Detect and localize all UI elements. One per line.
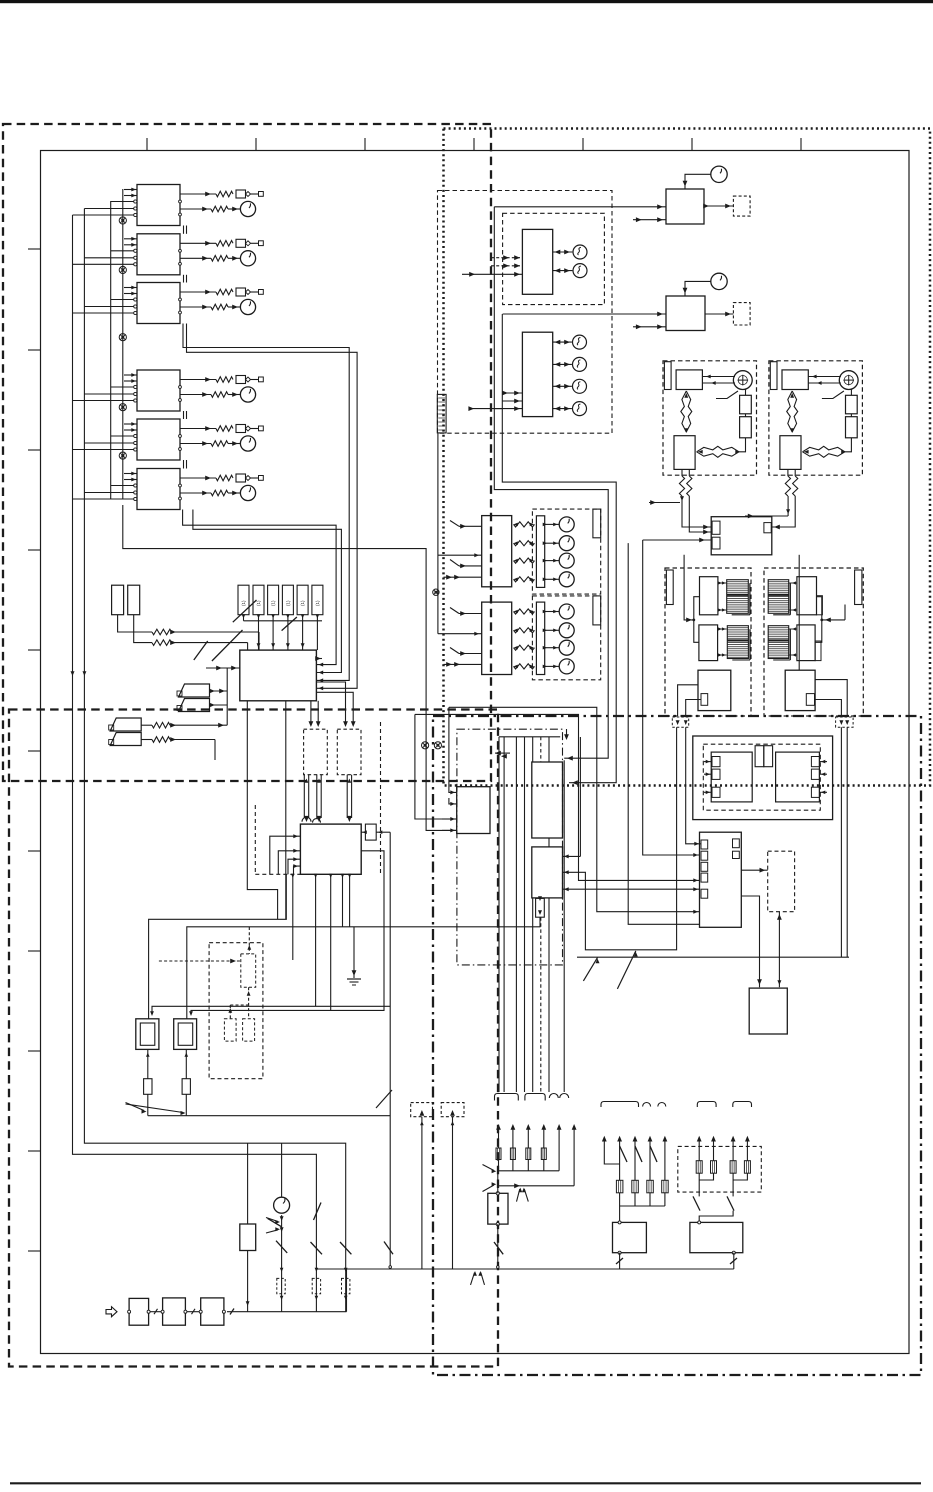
fuse FB4 — [282, 585, 293, 615]
accessory switches — [620, 1146, 627, 1162]
accessory fuse — [662, 1180, 669, 1193]
motor drive assembly outer box — [693, 736, 833, 820]
lighting arrow — [745, 1136, 750, 1142]
accessory arrows left group — [602, 1136, 607, 1142]
crossing slash d — [212, 630, 243, 661]
wire slash mark b — [617, 951, 635, 989]
gauge M5 — [240, 436, 255, 451]
indicator lamp L3 — [573, 335, 587, 349]
accessory fuse — [632, 1180, 639, 1193]
svg-text:(1): (1) — [241, 600, 246, 606]
option dash-dot box — [457, 729, 563, 965]
relay unit U1 — [137, 185, 180, 226]
harness hood 5 — [733, 1102, 752, 1108]
unit R row2 grid — [768, 626, 789, 659]
wire: contactor L aux to E2 port1 — [686, 727, 701, 844]
zone crossing arrows — [495, 751, 501, 756]
main bus at 1269 — [316, 1268, 733, 1270]
U1 gauge wire — [180, 208, 211, 210]
fuse row1 — [541, 1148, 546, 1160]
svg-text:(1): (1) — [256, 600, 261, 606]
wire from E1 bottom — [285, 701, 287, 920]
meter cluster dashed enclosure — [438, 191, 613, 434]
control box out to contactor R — [798, 555, 800, 670]
fuse FB1 — [238, 585, 249, 615]
center junction box — [457, 787, 490, 834]
unit1 input wire low — [444, 576, 482, 578]
gauge G-A wire — [685, 174, 711, 189]
horn unit L coil box — [676, 370, 702, 390]
U1 input stubs — [124, 189, 137, 191]
main controller box E1 — [240, 650, 317, 701]
drive feed stubs — [704, 761, 712, 763]
horizontal spring R — [803, 446, 845, 452]
E4 left inputs — [270, 836, 301, 874]
wire left trunk b — [123, 505, 457, 830]
grid link arrows — [718, 582, 727, 584]
U2 fuse row wire — [180, 242, 216, 244]
relay K1 resistor — [144, 1079, 152, 1095]
relay dashed box K3 — [768, 851, 795, 912]
lever switch S1 — [179, 684, 210, 697]
relay unit U3 — [137, 283, 180, 324]
relay box R — [780, 436, 801, 470]
horn unit R mount tab — [770, 362, 777, 390]
grommet pair center — [422, 742, 429, 749]
meter unit 1 dashed box — [503, 213, 605, 304]
resistor R1b — [211, 206, 228, 212]
wire R7 to controller — [172, 631, 260, 633]
E2 input arrows — [693, 853, 698, 857]
B2 output to trunk — [563, 855, 581, 857]
E1 output to connector rect2 b — [316, 692, 353, 725]
capacitor block R1 — [846, 395, 858, 414]
contactor R wires down — [815, 680, 847, 716]
resistor below B2 — [536, 898, 545, 917]
gauge G-A — [711, 166, 727, 182]
lamp driver 1 body — [482, 516, 512, 587]
weave vertical to E2 lower port — [628, 543, 699, 924]
U6 fuse row wire — [180, 477, 216, 479]
unit A output wire — [704, 205, 733, 207]
wire into control box lower port — [643, 539, 712, 541]
lighting arrow — [697, 1136, 702, 1142]
U5 fuse row wire — [180, 428, 216, 430]
L2 wire — [553, 270, 573, 272]
dashed wires — [248, 927, 250, 954]
accessory bus — [620, 1205, 665, 1207]
connector rows (dashed) under E1 — [304, 729, 328, 775]
fuse F2 — [236, 239, 246, 247]
wire from rail down to junction box — [415, 714, 457, 819]
unit1 input wire — [438, 554, 482, 556]
lighting box B — [690, 1222, 743, 1252]
U4 input stubs — [124, 374, 137, 376]
trunk arrow down — [564, 734, 569, 740]
E2 output down — [741, 896, 759, 987]
spring link L — [681, 391, 687, 432]
dash link vertical b — [254, 805, 256, 874]
dashed coil b — [243, 1019, 255, 1041]
lamp wire — [553, 363, 572, 365]
lamp wire — [553, 408, 572, 410]
connector CN-B (dashed) — [733, 303, 750, 325]
unit1 connector tab — [593, 509, 601, 538]
U4 fuse row wire — [180, 379, 216, 381]
harness arc b — [560, 1094, 569, 1099]
control box left port 2 — [712, 537, 720, 549]
dashed fuse bottom a — [277, 1278, 285, 1293]
chassis ground — [347, 978, 361, 980]
wire: U3 output a to E1 right edge — [183, 324, 349, 681]
svg-text:(1): (1) — [285, 600, 290, 606]
resistor R8 — [152, 640, 172, 646]
wire from E1 bottom b — [247, 701, 277, 920]
horn L stub arrow — [649, 502, 680, 504]
lighting fuse — [711, 1161, 717, 1174]
lamp driver 2 body — [482, 602, 512, 674]
zone pass connector L (dashed) — [672, 717, 688, 727]
capacitor block R2 — [846, 417, 858, 438]
bus tick marks — [230, 1309, 234, 1315]
control box right port — [764, 523, 771, 533]
resistor R4b — [211, 392, 228, 398]
meter unit 1 input wire — [462, 273, 522, 275]
U6 input stubs — [124, 473, 137, 475]
lamp driver 2 resistor pack — [536, 602, 544, 674]
unit2 input wire — [438, 633, 482, 635]
long wire from meter top rail down — [494, 207, 608, 758]
U3 input stubs — [124, 287, 137, 289]
U3 fuse row wire — [180, 291, 216, 293]
unit B input stub — [633, 326, 666, 328]
crossing slash c — [194, 641, 208, 660]
long wire from meter unit2 down — [502, 314, 616, 783]
main fuse — [488, 1193, 508, 1224]
lamp wire — [553, 385, 572, 387]
motor drive inner dashed box — [703, 744, 820, 810]
battery gauge — [274, 1197, 290, 1213]
svg-text:(1): (1) — [315, 600, 320, 606]
warning lamps unit2 — [514, 609, 535, 614]
fusible link FL2 — [128, 585, 140, 615]
resistor R2a — [216, 241, 233, 247]
motor R — [839, 371, 858, 390]
spring link R — [787, 391, 793, 432]
junction box inputs — [442, 818, 457, 820]
relay unit U2 — [137, 234, 180, 275]
gauge G-B — [711, 273, 727, 289]
accessory fuse — [647, 1180, 654, 1193]
left bus wire B — [84, 209, 345, 1312]
fuse F4 — [236, 376, 246, 384]
key switch chain — [281, 1215, 283, 1312]
meter unit 1 body — [522, 229, 552, 294]
lever switch S4 — [110, 733, 141, 746]
U1 fuse row wire — [180, 193, 216, 195]
flasher unit B — [666, 296, 705, 331]
horn control box — [711, 517, 772, 555]
unit R row1 side tab — [817, 596, 823, 615]
cross wire upper — [149, 874, 287, 1019]
resistor R3a — [216, 289, 233, 295]
trunk dashed vertical — [540, 737, 542, 762]
svg-text:(1): (1) — [271, 600, 276, 606]
lighting switches — [693, 1196, 700, 1210]
resistor unit R dashed enclosure — [764, 568, 863, 716]
horn L wire to control box — [682, 496, 711, 527]
unit R feed arrow — [822, 619, 845, 621]
meter unit 2 body — [522, 332, 552, 416]
bus arrow marks — [71, 671, 75, 676]
terminal T4 — [259, 377, 264, 382]
flasher unit input stub — [633, 219, 666, 221]
rail wire to controller E2 upper — [449, 707, 700, 911]
fuse bank lower bus — [244, 620, 323, 622]
fuse F5 — [236, 425, 246, 433]
terminal T3 — [259, 290, 264, 295]
fuse bank feed wires to controller — [258, 621, 260, 650]
unit R row2 coil — [797, 625, 815, 661]
fuse FB6 — [312, 585, 323, 615]
accessory fuse — [616, 1180, 623, 1193]
meter harness drop wire — [437, 433, 439, 634]
row1 wires — [498, 1127, 500, 1148]
gauge M3 — [240, 299, 255, 314]
controller box E4 — [300, 824, 361, 874]
wire: U6 output a to E1 right edge — [183, 510, 337, 665]
trunk vertical e — [532, 737, 534, 762]
relay unit U4 — [137, 370, 180, 411]
resistor R7 — [152, 629, 172, 635]
harness hood 2 — [525, 1094, 545, 1101]
drive module R — [776, 752, 820, 802]
hour fuse wires — [247, 1143, 249, 1224]
fuse FB3 — [268, 585, 279, 615]
harness arc d — [658, 1103, 666, 1107]
center box B2 — [532, 847, 563, 898]
E2 to K3 wire — [741, 869, 767, 871]
lighting arrow — [731, 1136, 736, 1142]
contactor R aux — [806, 694, 814, 706]
crossing slash a — [233, 600, 257, 622]
resistor R3b — [211, 304, 228, 310]
meter unit 2 feed stubs — [502, 392, 522, 394]
fuse row1 — [526, 1148, 531, 1160]
ground wire — [353, 927, 355, 978]
battery wire up — [281, 1143, 283, 1197]
resistor R4a — [216, 377, 233, 383]
wire FL1 to resistor — [118, 615, 152, 632]
trunk vertical g — [548, 737, 550, 762]
unit L down wires with springs — [681, 469, 683, 476]
horn unit R dashed enclosure — [769, 361, 863, 475]
chevrons below bus — [471, 1273, 475, 1285]
relay unit U6 — [137, 469, 180, 510]
dashed link vertical — [380, 722, 382, 874]
terminal T6 — [259, 476, 264, 481]
indicator lamp L4 — [573, 357, 587, 371]
box A to bus — [619, 1253, 621, 1269]
trunk wire to controller E2 port1 — [643, 540, 700, 855]
zone box: instrument panel (top-left, dashed) — [3, 124, 491, 781]
E1 output to connector rect2 a — [316, 682, 345, 725]
lamp driver 1 resistor pack — [536, 516, 544, 588]
relay K2 resistor — [182, 1079, 190, 1095]
resistor unit L row link — [694, 597, 700, 643]
B2 output to E2 port — [563, 888, 700, 890]
horizontal spring L — [697, 446, 739, 452]
indicator lamp L2 — [573, 264, 587, 278]
left bus wire A — [73, 215, 317, 1312]
left bus wire D through grommets — [122, 189, 124, 499]
meter unit 1 dashed inputs — [491, 257, 522, 259]
resistor R6b — [211, 490, 228, 496]
S3 wire with resistor — [141, 724, 152, 726]
fuse FB2 — [253, 585, 264, 615]
coil-motor wires R — [808, 376, 841, 378]
lighting arrow — [711, 1136, 716, 1142]
unit1 input stub b — [450, 560, 459, 566]
motor R brush tail — [822, 391, 844, 399]
wire: U3 output b to E1 right edge — [187, 324, 358, 689]
unit R row2 side tab — [815, 641, 821, 661]
contactor L aux — [701, 694, 708, 706]
wire: U6 output b to E1 right edge — [193, 510, 342, 673]
unit L row2 coil — [699, 625, 718, 661]
capacitor block L2 — [740, 417, 752, 438]
B2 output to contactor loop — [564, 870, 569, 874]
harness arc a — [549, 1094, 558, 1099]
wire: contactor R to bottom rail — [840, 727, 842, 957]
relay unit U5 — [137, 419, 180, 460]
double wires to controller E4 — [303, 775, 305, 818]
unit B output wire — [705, 313, 733, 315]
dashed connector box b — [441, 1103, 464, 1117]
relay K1 — [136, 1019, 159, 1050]
S1/S2 wires — [210, 690, 228, 692]
left bus wire C — [110, 201, 112, 499]
motor L brush tail — [716, 391, 738, 399]
wire meter2 to unit B — [503, 313, 666, 315]
resistor R2b — [211, 256, 228, 262]
switch on bus wire A — [311, 1242, 323, 1254]
trunk verticals to harness — [498, 737, 500, 1092]
lever switch S2 — [179, 699, 210, 712]
U2 input stubs — [124, 238, 137, 240]
resistor unit R row link — [815, 597, 822, 643]
unit2 input stub b — [450, 648, 459, 654]
main bottom bus — [227, 1311, 347, 1313]
horn R wire to arrow — [787, 496, 789, 516]
box B to bus — [733, 1253, 735, 1269]
hour fuse — [240, 1224, 256, 1251]
horn unit R coil box — [782, 370, 808, 390]
control box out to resistor unit L — [684, 555, 694, 620]
row1 switch marks — [483, 1165, 495, 1171]
wire pointer arrows — [126, 1103, 145, 1111]
terminal T1 — [259, 192, 264, 197]
trunk vertical from T — [563, 760, 565, 1092]
unit R row1 grid — [768, 580, 789, 614]
junction feed from rail — [449, 707, 457, 792]
horn unit L dashed enclosure — [663, 361, 757, 475]
harness hood 4 — [697, 1102, 716, 1108]
trunk bundle top bar — [499, 736, 560, 738]
horn unit L mount tab — [664, 362, 671, 390]
contactor R — [785, 670, 815, 710]
chevron marks — [517, 1189, 520, 1202]
svg-text:(1): (1) — [300, 600, 305, 606]
resistor unit R tab — [855, 570, 862, 605]
unit2 input wire low — [444, 663, 482, 665]
wire R8 to controller — [172, 642, 248, 644]
zone box: chassis left (bottom-left, dashed) — [9, 710, 498, 1367]
unit L row1 grid — [727, 580, 749, 614]
drive center terminals — [755, 746, 764, 767]
grommet symbols on left bus — [119, 217, 126, 224]
terminal T5 — [259, 426, 264, 431]
U5 input stubs — [124, 423, 137, 425]
drive module L — [711, 752, 752, 802]
controller box E2 — [700, 832, 742, 927]
switch on bus wire A upper — [314, 1203, 322, 1221]
series box 3 — [201, 1298, 224, 1325]
border tick marks top — [146, 138, 148, 151]
resistor R1a — [216, 191, 233, 197]
S4 wire with resistor — [141, 739, 152, 741]
unit2 connector tab — [593, 596, 601, 625]
contactor L — [698, 670, 731, 710]
unit L row1 coil — [700, 577, 718, 615]
unit L row2 grid — [727, 626, 748, 659]
dashed relay inside — [241, 954, 256, 987]
connector CN-A (dashed) — [733, 196, 750, 216]
fuse F1 — [236, 190, 246, 198]
wire designation slash — [376, 1090, 392, 1108]
unit R down wires with springs — [787, 469, 789, 476]
connector wires up — [421, 1117, 423, 1269]
wire meter to flasher unit — [494, 206, 666, 208]
lighting fuse — [744, 1161, 750, 1174]
control box left port 1 — [712, 521, 720, 534]
contactor L wires down — [678, 685, 698, 716]
bus riser — [346, 1269, 348, 1312]
K3 output down — [778, 912, 780, 988]
harness hood 3 — [601, 1102, 639, 1108]
resistor R6a — [216, 475, 233, 481]
horn L wire b to control box — [689, 496, 711, 532]
E4 right outputs — [389, 832, 391, 1269]
wire: contactor L to B2 (down-left-up) — [563, 727, 677, 950]
E2 left ports — [701, 840, 708, 849]
dashed option box bottom-left — [209, 943, 263, 1079]
zone pass connector R (dashed) — [836, 717, 854, 727]
harness arc c — [643, 1103, 651, 1107]
lamp driver unit 2 dashed box — [532, 596, 600, 680]
ignition switch branch rail — [148, 1115, 390, 1117]
unit2 input stub a — [450, 608, 459, 614]
rail wire to controller E2 lower — [415, 714, 700, 880]
page top black bar — [0, 0, 933, 3]
zone box: top-right (dotted) — [444, 129, 931, 786]
B2 upper body — [532, 762, 563, 838]
drive module L ports — [712, 757, 720, 767]
accessory box A — [613, 1222, 647, 1252]
gauge M2 — [240, 251, 255, 266]
lamp wire — [553, 341, 572, 343]
indicator lamp L6 — [573, 402, 587, 416]
